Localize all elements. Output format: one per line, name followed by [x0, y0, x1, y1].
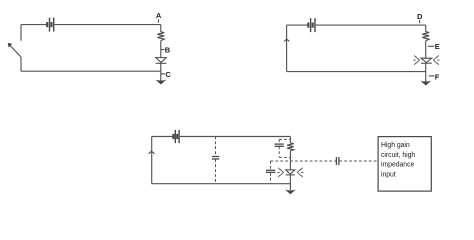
node A tick	[158, 19, 160, 22]
wire resistor-to-LED circuit 2	[425, 41, 427, 58]
node B tick	[161, 49, 165, 51]
wire left vertical upper circuit 1	[20, 25, 22, 41]
wire LED-to-ground circuit 2	[425, 63, 427, 81]
svg-text:D: D	[417, 12, 423, 21]
battery B1	[47, 18, 54, 32]
svg-text:B: B	[165, 45, 171, 54]
node D tick	[419, 20, 421, 23]
wire right vertical upper circuit 2	[425, 25, 427, 32]
coupling capacitor C4 plates	[336, 157, 339, 165]
svg-text:circuit, high: circuit, high	[381, 152, 415, 159]
switch S1 arrowhead	[8, 43, 13, 48]
svg-text:C: C	[165, 70, 171, 79]
ground arrow circuit 3	[285, 190, 296, 195]
wire bottom circuit 3	[152, 183, 291, 185]
dashed signal line to amplifier	[271, 160, 379, 162]
svg-text:E: E	[435, 42, 440, 51]
LED D3	[286, 170, 295, 175]
wire top-left segment circuit 1	[21, 24, 47, 26]
current arrow circuit 2	[284, 39, 289, 42]
ground arrow circuit 2	[420, 81, 431, 86]
wire top-left segment circuit 3	[152, 136, 173, 138]
LED D3 light arrows left	[277, 168, 283, 177]
wire bottom circuit 1	[21, 70, 161, 72]
wire LED-to-ground circuit 3	[289, 175, 291, 190]
LED D2 light arrows left	[413, 55, 419, 64]
stray capacitor C1 dashed leads	[215, 137, 217, 184]
stray capacitor C2 dashed loop top	[279, 139, 290, 157]
stray capacitor C3 dashed leads	[270, 161, 272, 184]
resistor R3	[287, 143, 294, 151]
node E tick	[428, 45, 434, 47]
wire right vertical upper circuit 1	[160, 25, 162, 32]
wire bottom circuit 2	[287, 71, 426, 73]
diode D1 (LED)	[156, 58, 167, 64]
svg-text:A: A	[156, 11, 162, 20]
LED D2	[421, 58, 432, 63]
svg-text:High gain: High gain	[381, 142, 410, 149]
node C tick	[161, 73, 165, 75]
svg-text:input: input	[381, 172, 396, 179]
stray capacitor C3 plates	[266, 170, 275, 172]
wire top-left segment circuit 2	[287, 24, 308, 26]
wire top-right segment circuit 3	[180, 136, 291, 138]
resistor R2	[422, 32, 429, 41]
stray capacitor C2 plates	[275, 144, 284, 146]
wire resistor-to-diode circuit 1	[160, 41, 162, 58]
svg-text:F: F	[435, 72, 440, 81]
battery B2	[308, 18, 315, 32]
LED D2 light arrows right	[433, 55, 439, 64]
wire left vertical circuit 3	[151, 137, 153, 184]
amplifier box	[378, 137, 431, 192]
battery B3	[173, 130, 179, 143]
ground arrow circuit 1	[156, 80, 167, 85]
wire diode-to-ground circuit 1	[160, 63, 162, 80]
switch S1 blade	[9, 44, 21, 57]
wire left vertical lower circuit 1	[20, 57, 22, 71]
stray capacitor C1 plates	[212, 157, 219, 160]
resistor R1	[157, 32, 164, 41]
node F tick	[429, 75, 435, 77]
svg-text:impedance: impedance	[381, 162, 414, 169]
wire top-right segment circuit 2	[316, 24, 426, 26]
current arrow circuit 3	[149, 151, 155, 154]
wire left vertical circuit 2	[286, 25, 288, 72]
wire top-right segment circuit 1	[54, 24, 161, 26]
LED D3 light arrows right	[297, 168, 303, 177]
wire right vertical upper circuit 3	[289, 137, 291, 144]
wire resistor-to-LED circuit 3	[289, 151, 291, 170]
